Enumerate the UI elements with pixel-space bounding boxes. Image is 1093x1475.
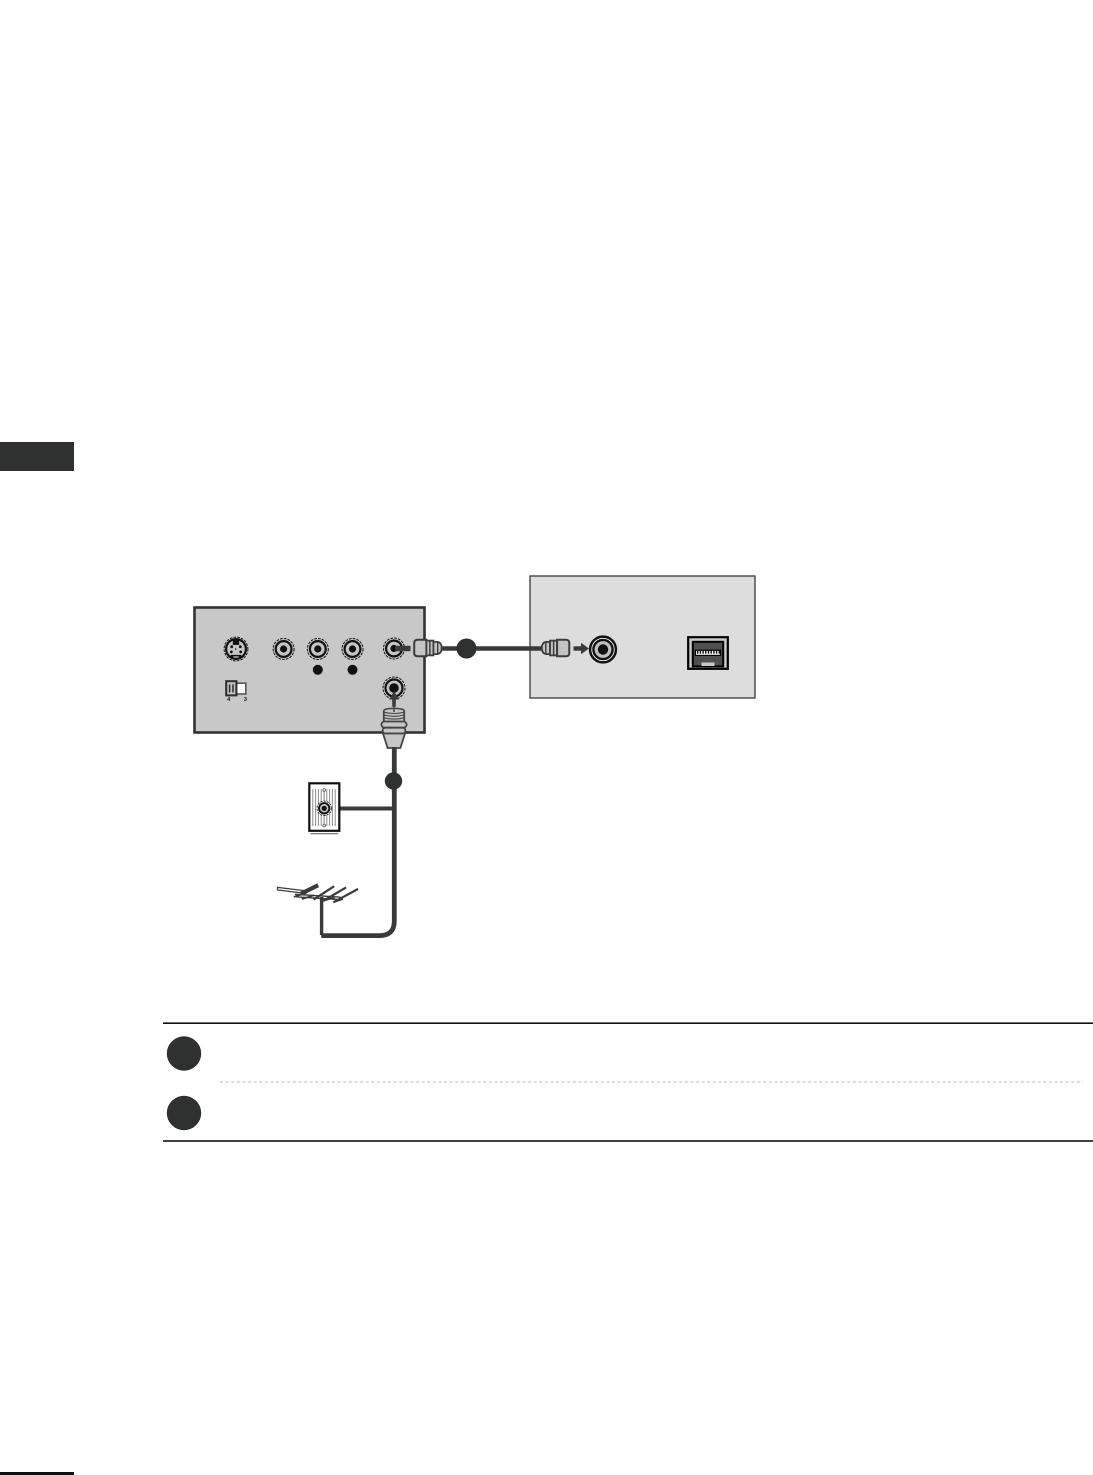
S-Video jack on VCR xyxy=(224,637,248,661)
cable ferrite dot xyxy=(457,639,477,659)
RCA jack 3 (AUDIO R) xyxy=(342,639,363,660)
RCA jack 1 (VIDEO) xyxy=(273,639,294,660)
RCA jack 2 (AUDIO L) xyxy=(307,639,328,660)
dot below jack 2 xyxy=(313,665,323,675)
right element 1 xyxy=(314,886,335,899)
wire: antenna cable down and left xyxy=(321,747,394,936)
reflector outlined bar xyxy=(278,887,306,893)
mast xyxy=(320,897,323,935)
dotted separator xyxy=(220,1081,1083,1083)
TV antenna jack xyxy=(590,637,616,663)
wire: RF cable to TV xyxy=(441,646,543,651)
channel 3/4 switch xyxy=(226,681,247,703)
boom rail upper xyxy=(295,894,341,897)
arrow into ANT IN jack xyxy=(389,691,399,707)
RF plug at TV side xyxy=(542,640,570,656)
F-connector plug xyxy=(381,704,406,749)
left stub element 2 xyxy=(302,895,314,899)
svg-text:3: 3 xyxy=(244,697,247,703)
step circle 1 xyxy=(167,1036,201,1070)
wire: stub from ANT OUT jack xyxy=(395,646,411,651)
antenna wall socket xyxy=(309,783,339,833)
filled director bar xyxy=(301,885,318,894)
outdoor antenna xyxy=(278,885,359,935)
base stub under element 2 xyxy=(324,898,335,901)
left stub element 1 xyxy=(294,893,306,897)
TV back panel xyxy=(530,576,755,698)
bottom rule top xyxy=(163,1022,1093,1024)
arrow into TV antenna jack xyxy=(574,643,590,655)
junction dot xyxy=(385,772,402,789)
bottom-left page bar xyxy=(0,1472,74,1475)
TV AV port xyxy=(688,637,728,669)
ANT OUT jack on VCR xyxy=(384,638,405,659)
VCR back panel xyxy=(195,608,425,733)
base stub under element 3 xyxy=(334,899,343,902)
wire: wall socket lead xyxy=(339,807,394,811)
ANT IN jack on VCR xyxy=(383,677,405,699)
step circle 2 xyxy=(167,1096,201,1130)
left section tab xyxy=(0,442,74,471)
dot below jack 3 xyxy=(348,665,358,675)
right element 3 xyxy=(333,889,358,902)
right element 2 xyxy=(323,888,346,901)
RF plug at VCR side xyxy=(414,640,442,656)
bottom rule bottom xyxy=(163,1140,1093,1142)
boom rail lower xyxy=(296,897,342,900)
